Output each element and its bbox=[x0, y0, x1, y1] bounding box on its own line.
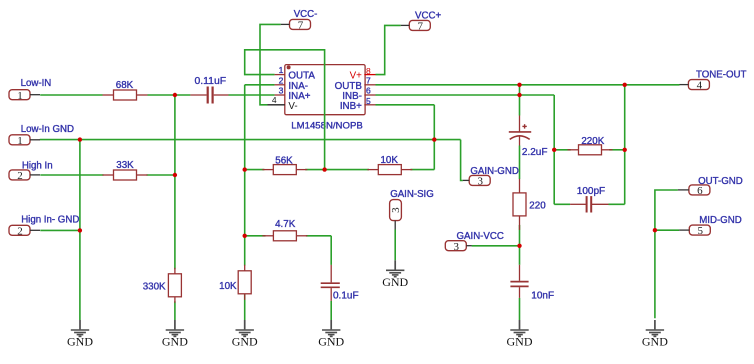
svg-text:4: 4 bbox=[697, 80, 703, 92]
svg-text:Low-IN: Low-IN bbox=[21, 78, 52, 89]
svg-text:2: 2 bbox=[279, 75, 284, 85]
svg-text:33K: 33K bbox=[116, 160, 134, 171]
svg-text:5: 5 bbox=[366, 96, 371, 106]
svg-text:GND: GND bbox=[507, 335, 533, 349]
svg-text:High In: High In bbox=[22, 160, 53, 171]
svg-text:1: 1 bbox=[17, 135, 23, 147]
svg-text:7: 7 bbox=[418, 21, 424, 33]
svg-text:10K: 10K bbox=[219, 281, 237, 292]
svg-text:GND: GND bbox=[318, 335, 344, 349]
svg-text:GND: GND bbox=[232, 335, 258, 349]
svg-text:5: 5 bbox=[698, 225, 704, 237]
svg-text:GND: GND bbox=[382, 275, 408, 289]
svg-text:3: 3 bbox=[279, 85, 284, 95]
svg-text:10K: 10K bbox=[380, 155, 398, 166]
svg-text:1: 1 bbox=[17, 90, 23, 102]
svg-text:4.7K: 4.7K bbox=[275, 219, 296, 230]
svg-text:GAIN-SIG: GAIN-SIG bbox=[390, 189, 434, 200]
svg-text:VCC+: VCC+ bbox=[415, 11, 441, 22]
svg-text:68K: 68K bbox=[116, 80, 134, 91]
svg-text:7: 7 bbox=[366, 76, 371, 86]
svg-text:LM1458N/NOPB: LM1458N/NOPB bbox=[291, 121, 362, 132]
svg-text:2: 2 bbox=[17, 225, 23, 237]
svg-text:GAIN-VCC: GAIN-VCC bbox=[457, 231, 504, 242]
svg-text:10nF: 10nF bbox=[531, 291, 554, 302]
svg-text:0.11uF: 0.11uF bbox=[195, 76, 227, 87]
svg-text:3: 3 bbox=[477, 176, 483, 188]
svg-text:MID-GND: MID-GND bbox=[699, 215, 742, 226]
svg-text:100pF: 100pF bbox=[577, 186, 605, 197]
svg-text:1: 1 bbox=[279, 65, 284, 75]
svg-text:GND: GND bbox=[642, 335, 668, 349]
svg-text:INB+: INB+ bbox=[340, 101, 362, 112]
svg-text:Hign In- GND: Hign In- GND bbox=[21, 214, 79, 225]
svg-text:4: 4 bbox=[272, 95, 277, 105]
svg-text:VCC-: VCC- bbox=[294, 9, 318, 20]
svg-text:TONE-OUT: TONE-OUT bbox=[696, 70, 746, 81]
svg-text:330K: 330K bbox=[143, 282, 166, 293]
svg-text:Low-In GND: Low-In GND bbox=[21, 124, 74, 135]
svg-text:V-: V- bbox=[288, 101, 297, 112]
svg-text:3: 3 bbox=[390, 207, 402, 213]
svg-text:2: 2 bbox=[17, 170, 23, 182]
svg-text:220K: 220K bbox=[581, 136, 604, 147]
svg-text:OUT-GND: OUT-GND bbox=[698, 176, 743, 187]
svg-text:8: 8 bbox=[366, 66, 371, 76]
svg-text:6: 6 bbox=[366, 86, 371, 96]
svg-text:GAIN-GND: GAIN-GND bbox=[470, 166, 518, 177]
svg-text:2.2uF: 2.2uF bbox=[522, 147, 548, 158]
svg-text:0.1uF: 0.1uF bbox=[333, 291, 359, 302]
svg-text:GND: GND bbox=[162, 335, 188, 349]
svg-text:7: 7 bbox=[298, 20, 304, 32]
svg-text:3: 3 bbox=[454, 241, 460, 253]
svg-text:56K: 56K bbox=[275, 155, 293, 166]
svg-text:220: 220 bbox=[529, 201, 546, 212]
svg-text:GND: GND bbox=[67, 335, 93, 349]
